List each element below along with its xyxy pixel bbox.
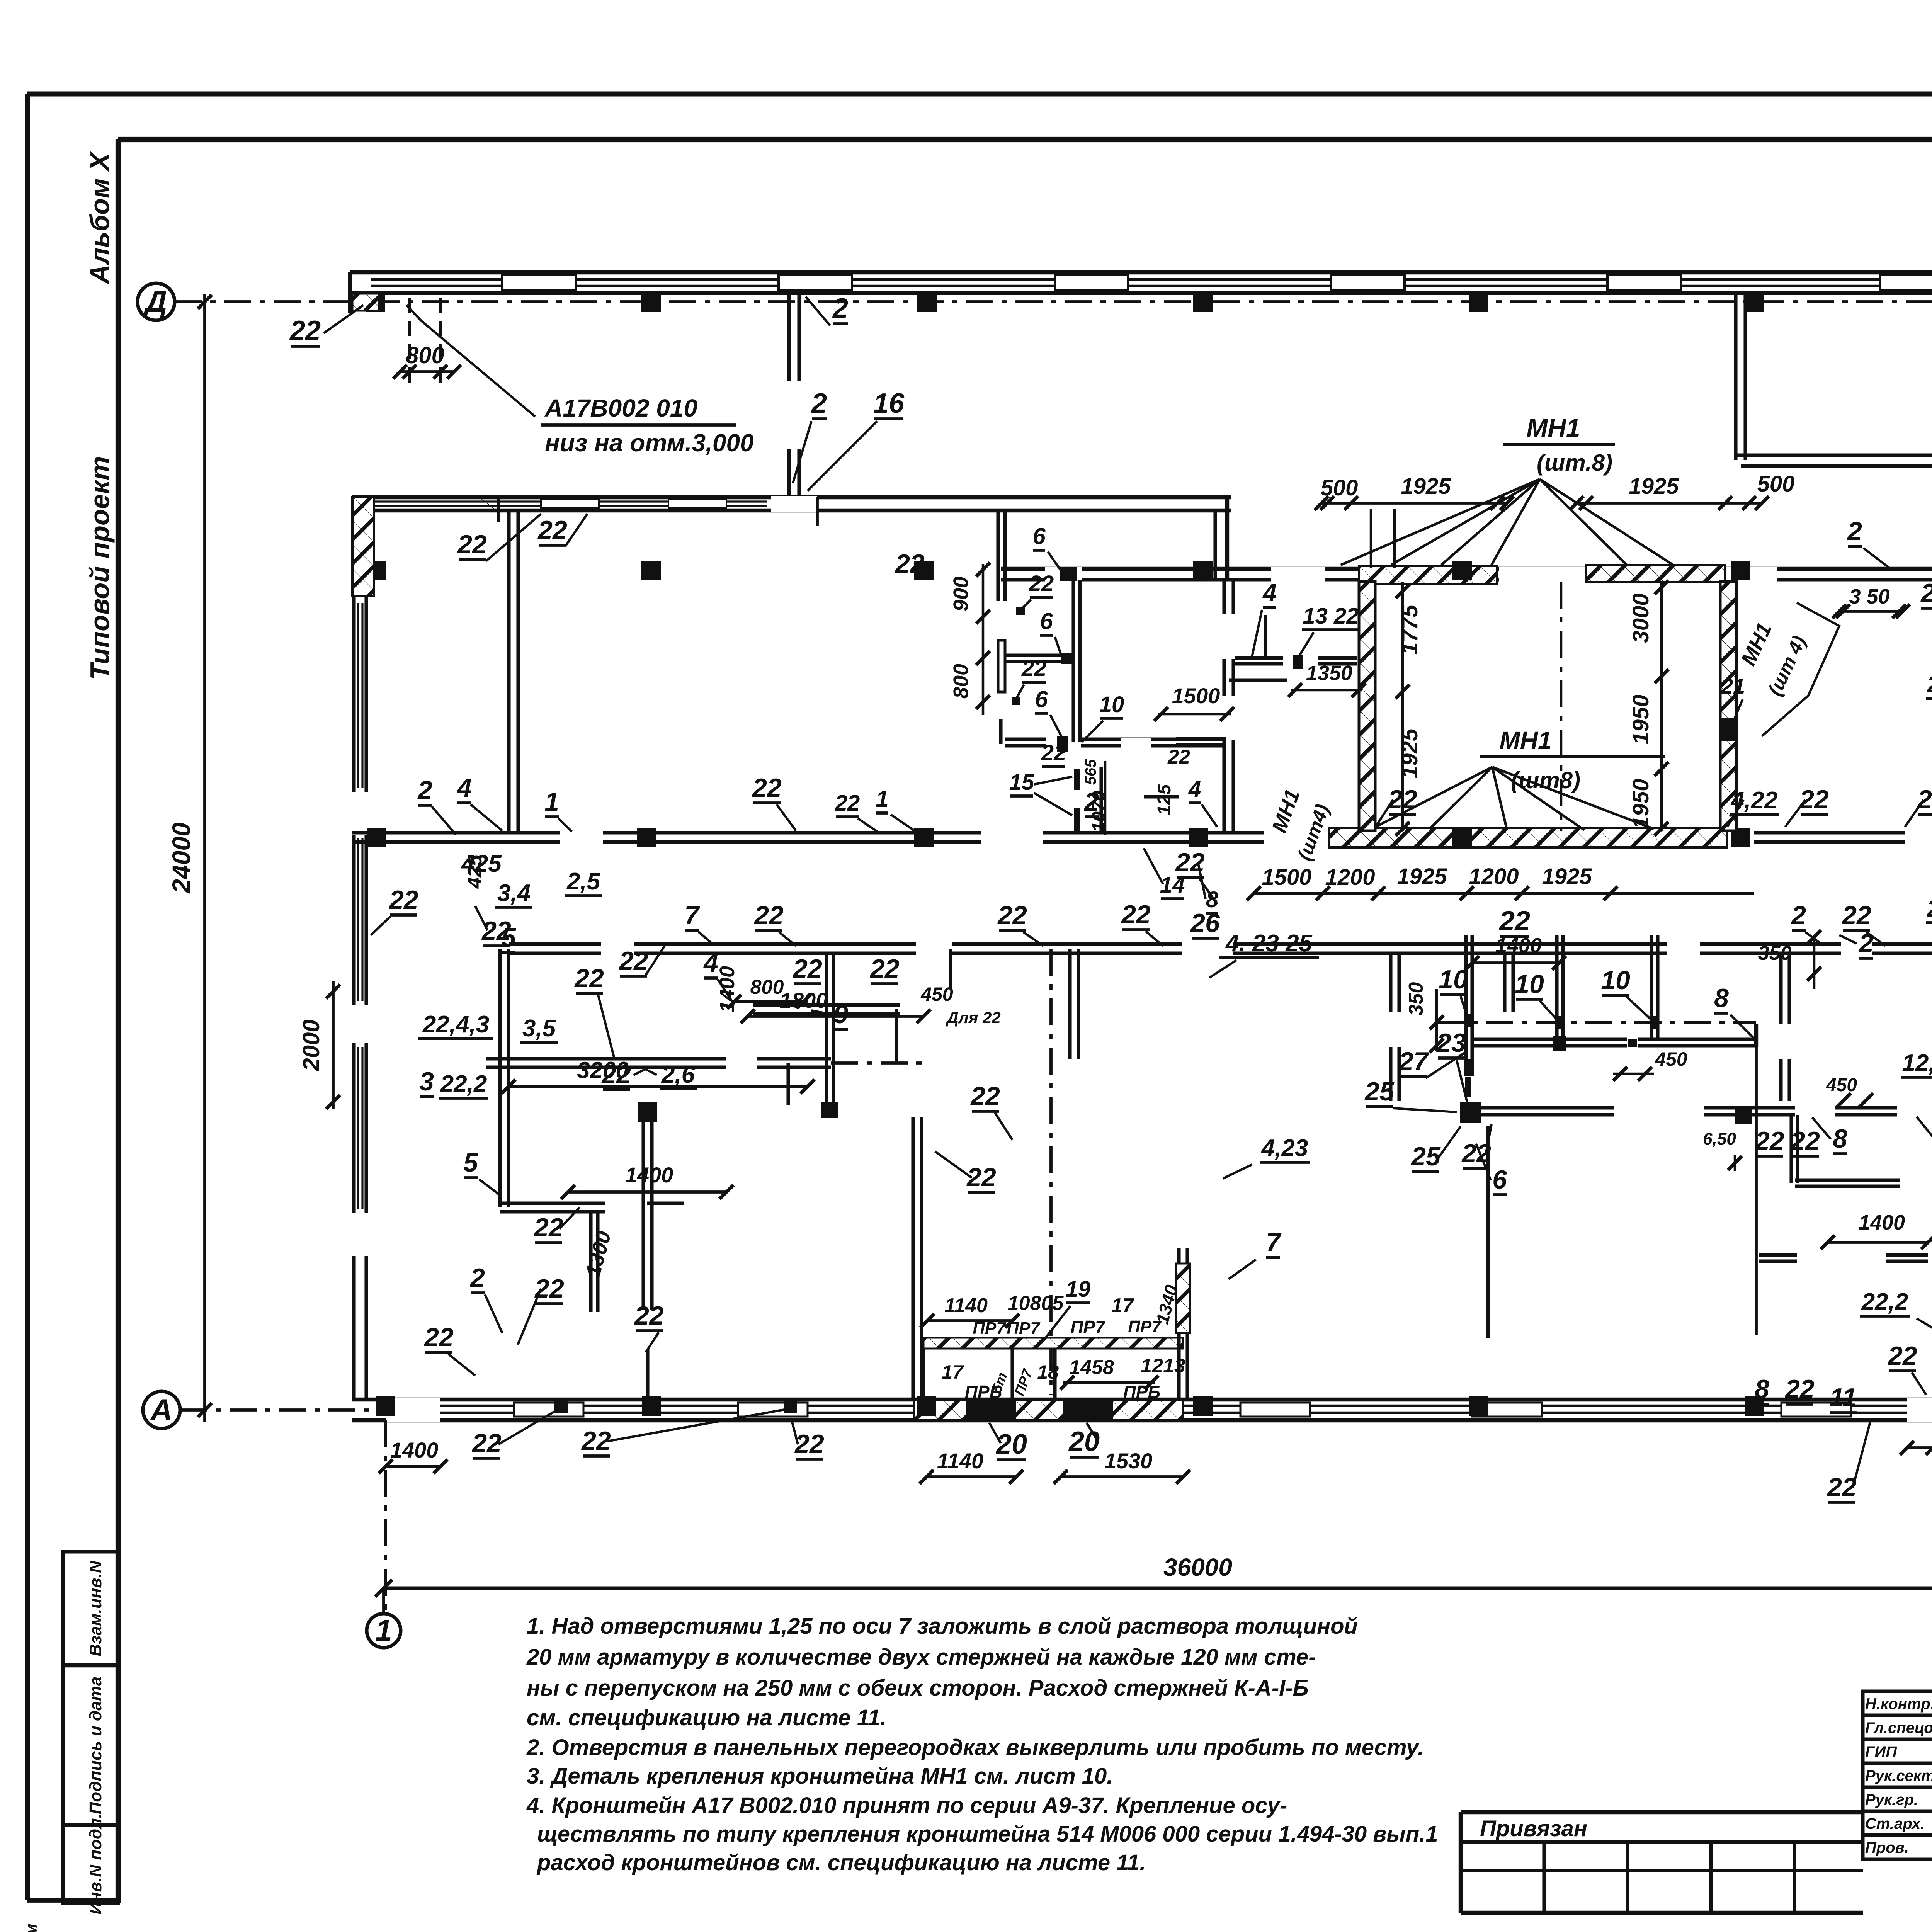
svg-text:6: 6 (1035, 686, 1048, 712)
15 partition pieces (1074, 769, 1080, 790)
axis circle 1 (382, 1588, 385, 1612)
rooms 10 axis dash line (1437, 1021, 1756, 1024)
svg-text:2000: 2000 (298, 1019, 324, 1071)
svg-text:1400: 1400 (1495, 934, 1542, 957)
svg-text:Пров.: Пров. (1865, 1839, 1909, 1856)
svg-text:1200: 1200 (1469, 864, 1519, 889)
L-wall corridor link right (1734, 293, 1737, 460)
svg-text:1140: 1140 (944, 1294, 988, 1317)
svg-text:22: 22 (753, 901, 784, 930)
svg-text:21: 21 (1721, 674, 1745, 698)
svg-text:9: 9 (833, 1000, 848, 1029)
bottom dim string of MH1 room (1254, 892, 1754, 895)
svg-text:1925: 1925 (1397, 728, 1422, 779)
step wall to lower top level (1225, 497, 1229, 580)
svg-text:2: 2 (832, 293, 848, 324)
svg-text:см. спецификацию на листе: см. спецификацию на листе 11. (527, 1705, 886, 1730)
svg-text:22: 22 (752, 773, 782, 803)
svg-text:22: 22 (533, 1213, 563, 1242)
svg-text:25: 25 (1410, 1142, 1441, 1171)
revision table and Privyazan (1461, 1810, 1863, 1814)
svg-text:Рук.сект.: Рук.сект. (1865, 1767, 1932, 1784)
bracket callout A17V002 010 (406, 305, 535, 417)
svg-text:7: 7 (684, 901, 700, 930)
svg-text:1925: 1925 (1542, 864, 1592, 889)
stub wall x2590 from top wall (996, 510, 1000, 601)
svg-text:8: 8 (1755, 1374, 1769, 1404)
svg-text:22: 22 (997, 901, 1027, 930)
svg-text:22: 22 (1029, 571, 1054, 596)
svg-text:22: 22 (792, 954, 822, 983)
wall x4620 between 2455 and 2860 (1779, 953, 1782, 1024)
svg-text:22: 22 (1841, 901, 1871, 930)
svg-text:низ на отм.3,000: низ на отм.3,000 (545, 429, 754, 457)
svg-text:3. Деталь крепления крон: 3. Деталь крепления кронштейна МН1 см. л… (527, 1764, 1113, 1789)
building bottom wall band (352, 1398, 1932, 1401)
svg-text:Д: Д (143, 284, 167, 318)
verticals lower right (1486, 1126, 1490, 1338)
sheet inner border (118, 137, 1932, 142)
svg-text:1400: 1400 (625, 1163, 673, 1187)
witness lines top opening (1370, 509, 1372, 568)
building top wall (left part) (352, 495, 1231, 499)
dim 1400 room lower-left (568, 1190, 726, 1194)
gap door at x~2000 (771, 496, 817, 512)
svg-text:22: 22 (1790, 1126, 1820, 1156)
svg-text:1: 1 (544, 787, 559, 816)
small wall near x2850 y2000 (1099, 767, 1103, 833)
svg-text:425: 425 (464, 855, 486, 889)
hatched lintel walls on top wall (1359, 566, 1497, 584)
corridor top wall band (350, 270, 1932, 274)
svg-text:27: 27 (1398, 1047, 1429, 1076)
svg-text:800: 800 (406, 342, 444, 368)
svg-text:10: 10 (1439, 965, 1468, 994)
title block signature table (1863, 1691, 1932, 1859)
svg-text:1530: 1530 (1104, 1449, 1153, 1473)
corridor columns (366, 293, 385, 312)
rooms 10 band: verticals (1464, 935, 1468, 1074)
svg-text:Ст.арх.: Ст.арх. (1865, 1815, 1925, 1832)
svg-text:7: 7 (1266, 1228, 1282, 1257)
svg-text:5: 5 (463, 1148, 478, 1177)
svg-text:27,22: 27,22 (1927, 671, 1932, 698)
svg-text:22: 22 (289, 315, 321, 346)
svg-text:ПР7: ПР7 (1128, 1317, 1162, 1336)
svg-text:20 мм арматуру в количест: 20 мм арматуру в количестве двух стержне… (526, 1645, 1316, 1670)
svg-text:800: 800 (750, 976, 784, 998)
svg-text:1775: 1775 (1397, 605, 1422, 655)
svg-text:МН1: МН1 (1499, 726, 1551, 754)
svg-text:350: 350 (1405, 982, 1427, 1016)
svg-text:2,6: 2,6 (661, 1061, 695, 1088)
svg-text:ны с перепуском на 250 мм: ны с перепуском на 250 мм с обеих сторон… (527, 1675, 1309, 1701)
svg-text:22,2: 22,2 (440, 1071, 487, 1097)
svg-text:8: 8 (1833, 1124, 1847, 1153)
svg-text:Привязан: Привязан (1480, 1816, 1587, 1841)
svg-text:3,5: 3,5 (522, 1015, 556, 1042)
svg-text:13 22: 13 22 (1303, 604, 1359, 629)
door posts (1016, 607, 1025, 615)
svg-text:1. Над отверстиями 1,25 по ос: 1. Над отверстиями 1,25 по оси 7 заложит… (527, 1614, 1358, 1639)
dim 800 room9 (734, 1000, 804, 1003)
svg-text:4: 4 (1188, 777, 1201, 802)
svg-text:2: 2 (417, 776, 432, 805)
svg-text:22: 22 (1784, 1374, 1815, 1404)
corridor wall panels (502, 275, 576, 291)
svg-text:5: 5 (501, 923, 516, 952)
svg-text:1400: 1400 (1859, 1211, 1905, 1234)
svg-text:1400: 1400 (716, 966, 739, 1012)
svg-text:6: 6 (1032, 523, 1046, 549)
svg-text:4: 4 (1262, 579, 1277, 607)
svg-text:расход кронштейнов см. сп: расход кронштейнов см. спецификацию на л… (536, 1850, 1146, 1875)
svg-text:ПРБ: ПРБ (965, 1382, 1002, 1402)
svg-text:З.Альбом: З.Альбом (22, 1924, 40, 1932)
svg-text:23: 23 (1436, 1028, 1466, 1058)
svg-text:А17В002 010: А17В002 010 (544, 394, 697, 422)
room 9 walls (753, 1003, 900, 1007)
svg-text:1200: 1200 (1325, 865, 1375, 890)
vertical dimension 24000 between axes (203, 294, 206, 1422)
svg-text:3: 3 (419, 1067, 434, 1096)
svg-text:1500: 1500 (1262, 865, 1311, 890)
svg-text:8: 8 (1206, 887, 1219, 912)
svg-text:МН1: МН1 (1736, 619, 1776, 669)
wall x3610 between 2455-2860 (1389, 953, 1392, 1012)
svg-text:15: 15 (1009, 770, 1034, 795)
svg-text:4,23: 4,23 (1261, 1135, 1308, 1162)
svg-text:МН1: МН1 (1526, 413, 1580, 442)
MH1 room vertical dims left (1401, 582, 1404, 831)
svg-text:6: 6 (1040, 608, 1053, 634)
svg-text:Инв.N подл.: Инв.N подл. (86, 1813, 105, 1915)
svg-text:22: 22 (1121, 900, 1151, 929)
svg-text:1925: 1925 (1629, 474, 1679, 499)
wall x2374 lower (911, 1117, 915, 1400)
svg-text:4. 23 25: 4. 23 25 (1225, 930, 1313, 957)
svg-text:22: 22 (970, 1082, 1000, 1111)
svg-text:22: 22 (869, 954, 900, 983)
svg-text:4: 4 (703, 948, 718, 978)
small stub right of room 9 (949, 949, 952, 989)
building left wall (352, 497, 374, 596)
svg-text:2: 2 (1847, 517, 1862, 546)
svg-text:22: 22 (471, 1429, 502, 1458)
MH1 room vertical dims right (1660, 582, 1663, 831)
svg-text:25: 25 (1364, 1077, 1395, 1106)
center vertical wall x2780 (1068, 949, 1071, 1059)
small anchor squares on bottom wall (554, 1400, 568, 1413)
lower-left room walls (498, 949, 502, 1207)
wall row y2875 (1481, 1106, 1614, 1109)
svg-text:22: 22 (423, 1323, 454, 1352)
bottom center small rooms (923, 1338, 1183, 1349)
svg-text:ществлять по типу крепления: ществлять по типу крепления кронштейна 5… (537, 1821, 1438, 1847)
svg-text:3 50: 3 50 (1849, 585, 1889, 608)
svg-text:22: 22 (457, 530, 487, 559)
svg-text:24000: 24000 (167, 822, 196, 894)
bottom wall hatched strip with lintels (914, 1400, 1183, 1420)
svg-text:565: 565 (1082, 759, 1099, 785)
wall row y2455 (509, 942, 601, 946)
svg-text:500: 500 (1757, 471, 1795, 497)
svg-text:1300: 1300 (581, 1229, 616, 1280)
svg-text:2. Отверстия в панельных: 2. Отверстия в панельных перегородках вы… (526, 1735, 1424, 1760)
axis D line (175, 300, 1932, 303)
stub row y1920 (1005, 737, 1046, 741)
svg-text:1: 1 (876, 786, 888, 812)
svg-text:22: 22 (1021, 656, 1047, 681)
svg-text:450: 450 (1826, 1075, 1857, 1095)
svg-text:22: 22 (537, 515, 567, 545)
vertical dimension 2000 (332, 981, 335, 1109)
svg-text:ПР7: ПР7 (1011, 1366, 1036, 1398)
svg-text:ПР7: ПР7 (1007, 1319, 1041, 1338)
svg-text:2: 2 (1920, 578, 1932, 608)
svg-text:1950: 1950 (1628, 694, 1653, 744)
svg-text:16: 16 (873, 388, 905, 419)
dim 1800 (748, 1015, 923, 1018)
vertical wall x2786 (1071, 580, 1075, 742)
svg-text:Альбом X: Альбом X (85, 151, 115, 285)
svg-text:800: 800 (949, 664, 973, 699)
svg-text:А: А (150, 1393, 172, 1427)
svg-text:1458: 1458 (1069, 1356, 1114, 1379)
svg-text:4. Кронштейн А17 В002.010: 4. Кронштейн А17 В002.010 принят по сери… (526, 1793, 1287, 1818)
wall row y2697 (1472, 1037, 1553, 1041)
MH1 room right hatched wall (1720, 582, 1736, 831)
svg-text:14: 14 (1160, 872, 1185, 898)
svg-text:500: 500 (1321, 475, 1358, 500)
mid-left lower stub (786, 1063, 790, 1105)
svg-text:22,4,3: 22,4,3 (422, 1011, 489, 1038)
svg-text:350: 350 (1758, 942, 1792, 964)
svg-text:10: 10 (1099, 692, 1124, 717)
columns on top walls (1452, 561, 1472, 580)
svg-text:ГИП: ГИП (1865, 1743, 1897, 1760)
svg-text:2: 2 (469, 1263, 485, 1293)
svg-text:22: 22 (388, 885, 418, 915)
wall stubs y1710 (1235, 656, 1283, 660)
corridor-building connecting wall (787, 293, 791, 381)
center vertical wall x2148 (825, 954, 828, 1106)
svg-text:1: 1 (375, 1613, 392, 1647)
svg-text:(шт 4): (шт 4) (1764, 633, 1810, 699)
stub row y1703 (1005, 653, 1074, 657)
dim line 36000 (384, 1586, 1932, 1590)
svg-text:1400: 1400 (390, 1438, 439, 1462)
svg-text:22: 22 (1754, 1126, 1784, 1156)
svg-text:10805: 10805 (1008, 1292, 1064, 1315)
MH1 room left hatched wall (1359, 582, 1375, 831)
svg-text:17: 17 (1111, 1294, 1134, 1317)
svg-text:22: 22 (1498, 906, 1530, 937)
interior vertical wall x1329 (507, 510, 510, 833)
axis D circle (138, 283, 175, 320)
svg-text:22: 22 (835, 791, 860, 816)
svg-text:Для 22: Для 22 (946, 1009, 1001, 1027)
svg-text:3000: 3000 (1628, 593, 1653, 643)
svg-text:22: 22 (1041, 740, 1066, 765)
center dash axis x2720 (1049, 949, 1053, 1395)
svg-text:ПР7: ПР7 (973, 1319, 1007, 1338)
door post on wall A (1060, 567, 1077, 581)
bottom-left dim 1400 (386, 1465, 440, 1468)
svg-text:22: 22 (1167, 746, 1190, 768)
svg-text:450: 450 (920, 983, 953, 1005)
svg-text:22: 22 (574, 964, 604, 993)
svg-text:22: 22 (1387, 785, 1417, 814)
svg-text:22: 22 (1917, 785, 1932, 814)
svg-text:8: 8 (1714, 983, 1729, 1013)
svg-text:4: 4 (456, 773, 472, 803)
svg-text:22,2: 22,2 (1861, 1289, 1908, 1315)
svg-text:МН1: МН1 (1267, 786, 1304, 836)
svg-text:18: 18 (1037, 1361, 1059, 1383)
svg-text:(шт4): (шт4) (1293, 801, 1333, 863)
top right opening dims 500 1925 (1321, 502, 1507, 505)
svg-text:2,5: 2,5 (566, 868, 601, 895)
svg-text:6,50: 6,50 (1703, 1129, 1736, 1148)
bottom right dim 600 (1907, 1446, 1932, 1449)
svg-text:10: 10 (1601, 966, 1630, 995)
MH1 room bottom hatched wall (1329, 828, 1727, 847)
svg-text:2: 2 (1791, 901, 1806, 930)
svg-text:Типовой проект: Типовой проект (85, 456, 115, 680)
row y3255 pieces (1759, 1253, 1797, 1257)
svg-text:20: 20 (1068, 1426, 1100, 1457)
svg-text:1140: 1140 (937, 1449, 983, 1473)
svg-text:2: 2 (811, 388, 827, 419)
dim 3200 lower-left (509, 1085, 808, 1088)
svg-text:6: 6 (1492, 1165, 1507, 1194)
axis A line (180, 1408, 386, 1412)
svg-text:22: 22 (1799, 785, 1829, 814)
wall row y2750 (486, 1057, 726, 1060)
svg-text:450: 450 (1655, 1048, 1687, 1070)
corridor left end hatch (352, 294, 379, 311)
svg-text:22: 22 (634, 1301, 664, 1330)
svg-text:1500: 1500 (1172, 684, 1220, 708)
svg-text:(шт.8): (шт.8) (1537, 450, 1612, 476)
svg-text:Подпись и дата: Подпись и дата (86, 1677, 105, 1815)
svg-text:ПРБ: ПРБ (1123, 1382, 1160, 1402)
left margin attribute table (63, 1552, 118, 1903)
svg-text:1925: 1925 (1397, 864, 1447, 889)
svg-text:22: 22 (601, 1060, 631, 1089)
svg-text:17: 17 (942, 1361, 964, 1383)
svg-text:ПР7: ПР7 (1070, 1317, 1106, 1337)
interior wall row at y2166 (352, 831, 560, 834)
svg-text:125: 125 (1154, 784, 1175, 815)
small stub walls in notch (1264, 615, 1267, 657)
svg-text:25,24: 25,24 (1927, 895, 1932, 922)
axis A circle (143, 1391, 180, 1429)
svg-text:Н.контр.: Н.контр. (1865, 1696, 1932, 1713)
notch interior wall x3180 down (1222, 580, 1226, 833)
svg-text:19: 19 (1066, 1277, 1091, 1302)
bottom wall panels (514, 1403, 583, 1417)
svg-text:36000: 36000 (1163, 1553, 1232, 1581)
sheet outer border (27, 92, 1932, 97)
columns on wall y2166 (367, 828, 386, 847)
dims above PR7 row (927, 1319, 1012, 1322)
svg-text:1800: 1800 (780, 988, 828, 1012)
svg-text:Взам.инв.N: Взам.инв.N (86, 1560, 105, 1656)
svg-text:3,4: 3,4 (497, 880, 531, 906)
svg-text:10: 10 (1515, 969, 1544, 999)
wall x3905 room with dim 1400 (1503, 953, 1506, 1012)
svg-text:20: 20 (995, 1429, 1027, 1460)
svg-text:Рук.гр.: Рук.гр. (1865, 1791, 1918, 1808)
svg-text:22: 22 (895, 549, 925, 578)
right side dims 3 50 / 1900 / 1810 (1839, 610, 1903, 613)
svg-text:1925: 1925 (1401, 474, 1451, 499)
svg-text:1213: 1213 (1141, 1355, 1185, 1377)
svg-text:22: 22 (581, 1426, 611, 1456)
svg-text:12,22: 12,22 (1902, 1050, 1932, 1077)
door stub on top wall (497, 497, 500, 522)
svg-text:11: 11 (1830, 1383, 1857, 1412)
bottom center dims 1140 1530 (927, 1475, 1016, 1478)
dims 900 800 (982, 564, 985, 715)
svg-text:900: 900 (949, 577, 973, 611)
svg-text:(шт8): (шт8) (1511, 767, 1580, 793)
bottom wall columns (376, 1396, 395, 1416)
dim 800 below corridor (408, 298, 411, 383)
interior wall y1487 left extension (1001, 567, 1229, 571)
svg-text:22: 22 (618, 946, 648, 976)
centerline MH1 room (1560, 582, 1563, 831)
building top wall (right part) (1229, 567, 1932, 571)
svg-text:22: 22 (1887, 1341, 1917, 1371)
svg-text:Гл.спецотд: Гл.спецотд (1865, 1719, 1932, 1736)
svg-text:22: 22 (534, 1274, 564, 1303)
